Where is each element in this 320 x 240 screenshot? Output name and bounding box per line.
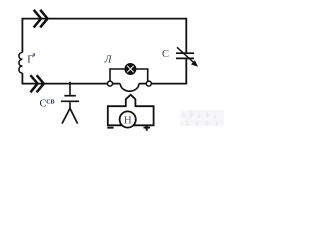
svg-text:Н: Н <box>124 115 132 127</box>
svg-text:СВ: СВ <box>46 99 54 105</box>
svg-text:C: C <box>162 49 169 60</box>
svg-text:0: 0 <box>33 52 36 58</box>
svg-text:Л: Л <box>104 55 113 66</box>
